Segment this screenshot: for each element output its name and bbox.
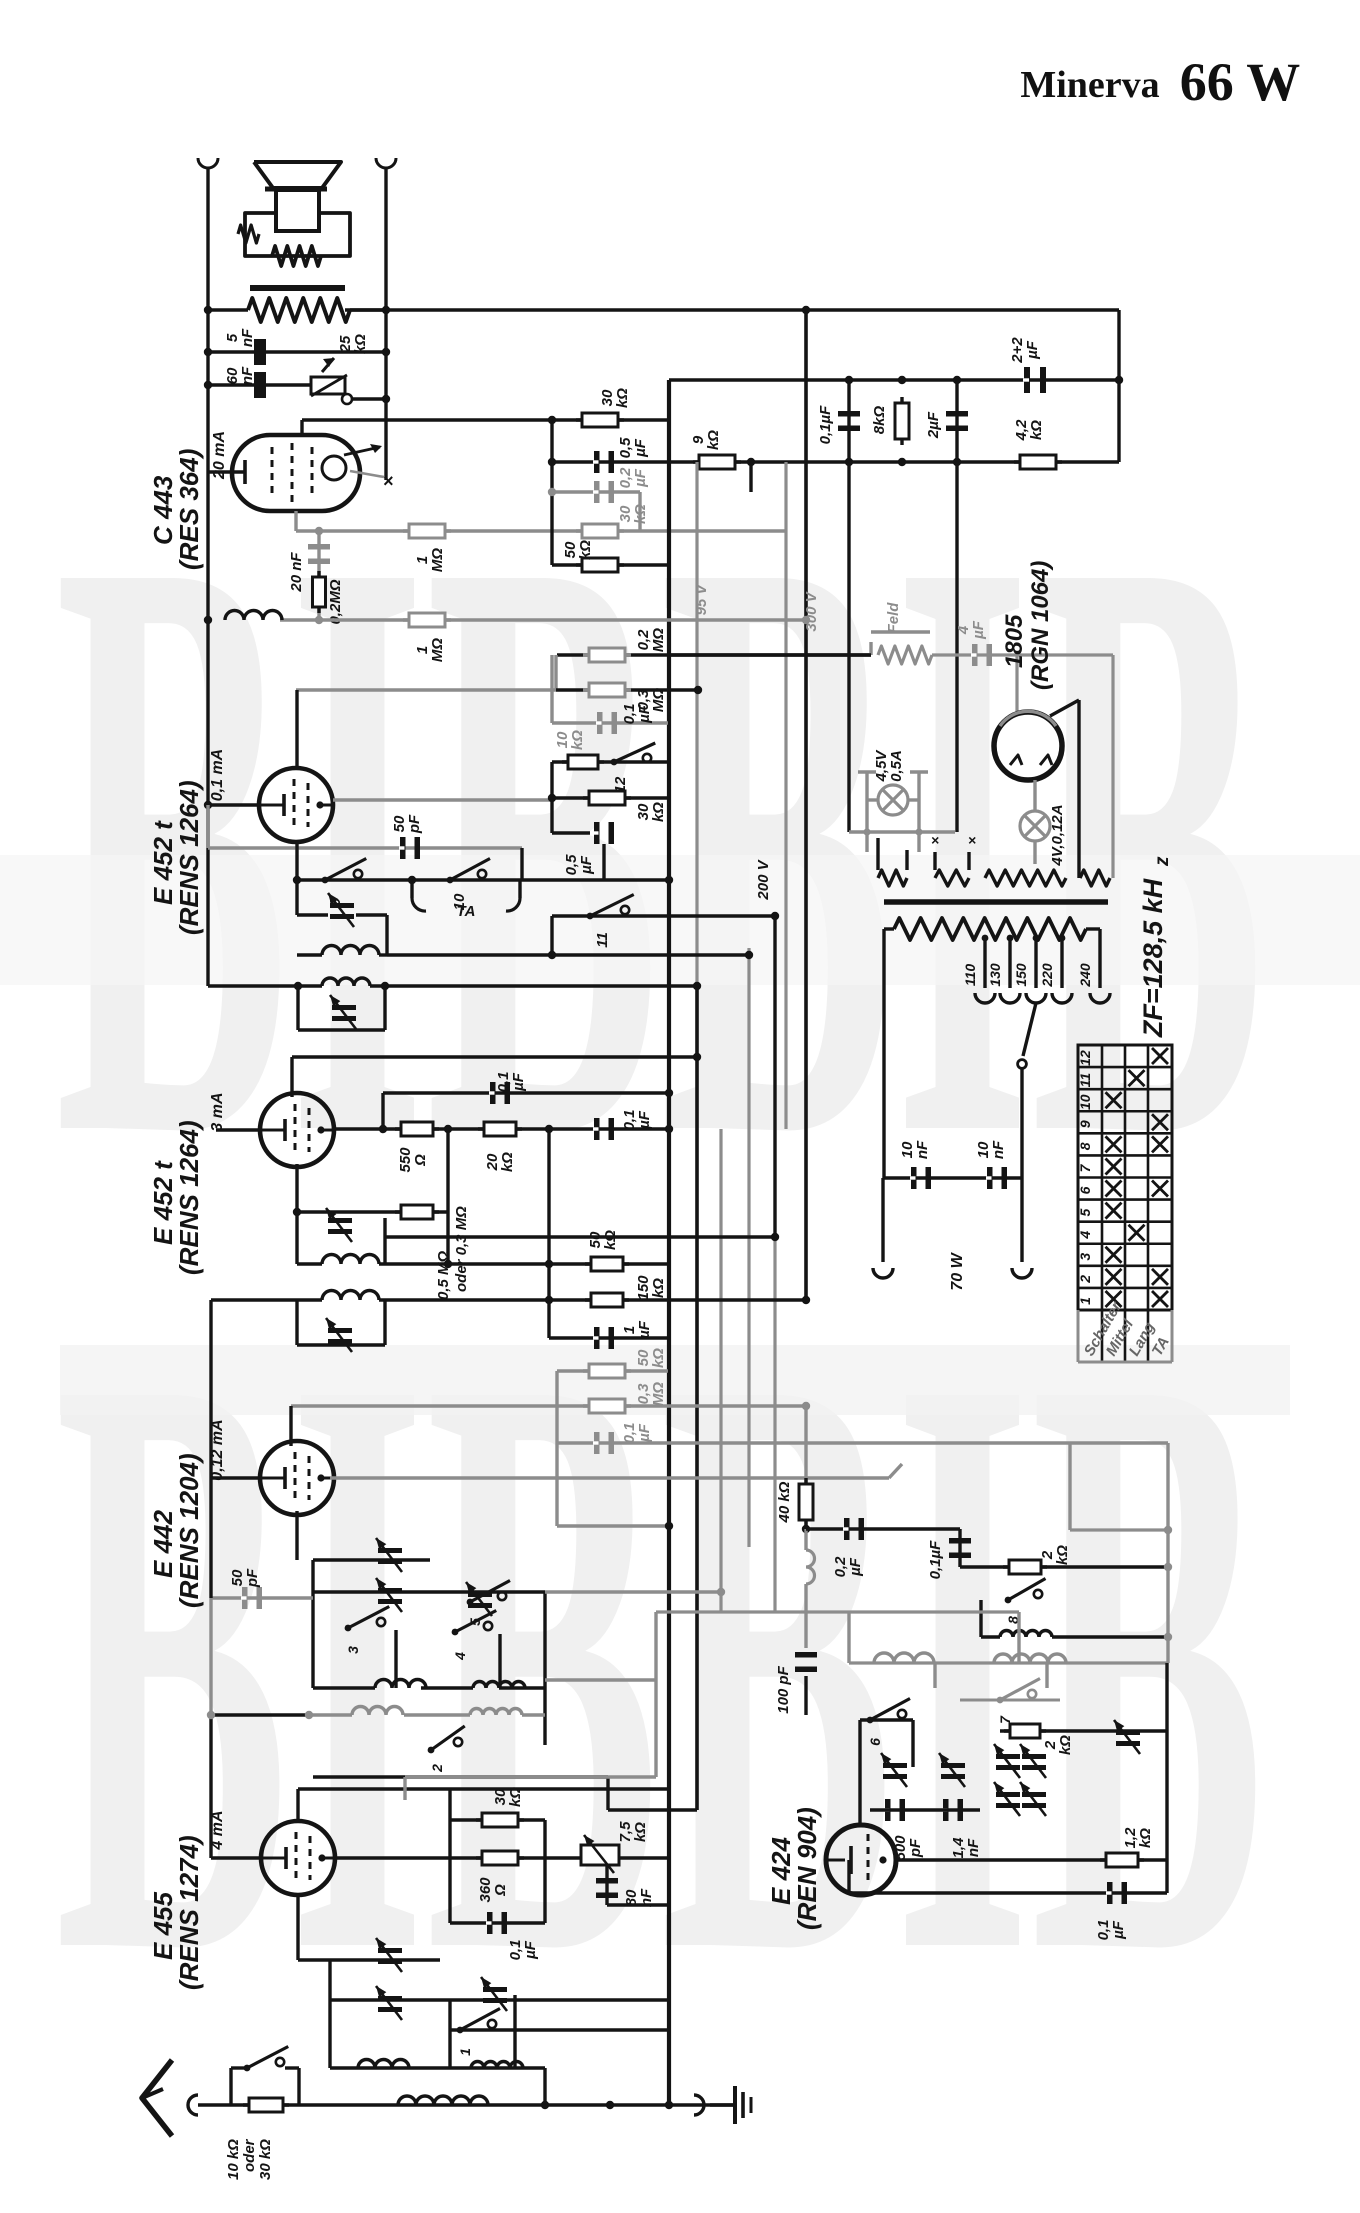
svg-text:µF: µF bbox=[636, 1110, 653, 1130]
svg-text:MΩ: MΩ bbox=[429, 638, 446, 662]
svg-text:µF: µF bbox=[970, 620, 987, 640]
svg-text:100 pF: 100 pF bbox=[775, 1665, 792, 1713]
svg-text:kΩ: kΩ bbox=[499, 1152, 516, 1172]
svg-text:4: 4 bbox=[452, 1652, 468, 1661]
svg-text:µF: µF bbox=[578, 855, 595, 875]
svg-text:(RES 364): (RES 364) bbox=[174, 449, 204, 570]
svg-text:240: 240 bbox=[1077, 963, 1093, 988]
svg-text:oder: oder bbox=[241, 2138, 258, 2172]
svg-text:1: 1 bbox=[1077, 1297, 1093, 1305]
svg-text:0,5 MΩ: 0,5 MΩ bbox=[435, 1250, 452, 1300]
svg-text:kΩ: kΩ bbox=[569, 730, 586, 750]
svg-text:MΩ: MΩ bbox=[429, 548, 446, 572]
svg-text:11: 11 bbox=[1077, 1073, 1093, 1088]
svg-text:µF: µF bbox=[522, 1940, 539, 1960]
svg-text:(RENS 1204): (RENS 1204) bbox=[174, 1453, 204, 1608]
svg-text:pF: pF bbox=[406, 814, 423, 834]
svg-text:µF: µF bbox=[636, 704, 653, 724]
svg-text:kΩ: kΩ bbox=[632, 1822, 649, 1842]
svg-text:220: 220 bbox=[1039, 963, 1055, 988]
svg-text:1: 1 bbox=[457, 2048, 473, 2056]
svg-text:10 kΩ: 10 kΩ bbox=[225, 2139, 242, 2180]
svg-text:3 mA: 3 mA bbox=[209, 1092, 226, 1131]
svg-text:oder 0,3 MΩ: oder 0,3 MΩ bbox=[453, 1206, 470, 1292]
svg-text:(RENS 1264): (RENS 1264) bbox=[174, 780, 204, 935]
svg-text:5: 5 bbox=[1077, 1209, 1093, 1217]
svg-text:µF: µF bbox=[632, 438, 649, 458]
svg-text:ZF=128,5 kH: ZF=128,5 kH bbox=[1138, 878, 1168, 1038]
svg-text:MΩ: MΩ bbox=[650, 1382, 667, 1406]
svg-text:µF: µF bbox=[636, 1423, 653, 1443]
svg-text:(RENS 1274): (RENS 1274) bbox=[174, 1835, 204, 1990]
svg-text:1805: 1805 bbox=[1001, 614, 1028, 668]
svg-text:kΩ: kΩ bbox=[352, 334, 369, 354]
svg-text:z: z bbox=[1152, 856, 1173, 867]
svg-text:×: × bbox=[383, 471, 394, 491]
svg-text:kΩ: kΩ bbox=[1028, 420, 1045, 440]
svg-text:kΩ: kΩ bbox=[1054, 1545, 1071, 1565]
svg-text:2: 2 bbox=[429, 1764, 445, 1773]
svg-text:11: 11 bbox=[594, 932, 611, 948]
svg-text:TA: TA bbox=[457, 903, 476, 920]
svg-text:nF: nF bbox=[965, 1838, 982, 1857]
svg-text:0,2MΩ: 0,2MΩ bbox=[327, 579, 344, 624]
svg-text:(RENS 1264): (RENS 1264) bbox=[174, 1120, 204, 1275]
svg-text:2: 2 bbox=[1077, 1275, 1093, 1284]
svg-text:40 kΩ: 40 kΩ bbox=[776, 1481, 793, 1523]
svg-text:(REN 904): (REN 904) bbox=[792, 1807, 822, 1930]
svg-text:nF: nF bbox=[239, 328, 256, 347]
svg-text:×: × bbox=[968, 832, 976, 848]
svg-text:66 W: 66 W bbox=[1180, 52, 1301, 112]
svg-text:µF: µF bbox=[632, 468, 649, 488]
svg-text:µF: µF bbox=[847, 1557, 864, 1577]
svg-text:130: 130 bbox=[987, 963, 1003, 987]
svg-text:6: 6 bbox=[867, 1738, 883, 1746]
svg-text:9: 9 bbox=[1077, 1120, 1093, 1128]
svg-text:5: 5 bbox=[467, 1618, 483, 1626]
svg-text:0,5A: 0,5A bbox=[888, 750, 905, 782]
svg-text:95 V: 95 V bbox=[693, 583, 710, 616]
svg-text:nF: nF bbox=[990, 1140, 1007, 1159]
svg-text:µF: µF bbox=[1024, 340, 1041, 360]
svg-text:µF: µF bbox=[510, 1072, 527, 1092]
svg-text:µF: µF bbox=[636, 1320, 653, 1340]
svg-text:kΩ: kΩ bbox=[1057, 1735, 1074, 1755]
svg-text:8: 8 bbox=[1077, 1142, 1093, 1150]
svg-text:300 V: 300 V bbox=[803, 590, 820, 631]
svg-text:8kΩ: 8kΩ bbox=[871, 406, 888, 435]
svg-text:70 W: 70 W bbox=[949, 1251, 966, 1290]
svg-text:kΩ: kΩ bbox=[650, 1278, 667, 1298]
svg-text:30 kΩ: 30 kΩ bbox=[257, 2139, 274, 2180]
svg-text:Ω: Ω bbox=[492, 1884, 509, 1897]
svg-text:200 V: 200 V bbox=[755, 858, 772, 900]
svg-text:kΩ: kΩ bbox=[705, 430, 722, 450]
svg-text:kΩ: kΩ bbox=[577, 540, 594, 560]
svg-text:0,1 mA: 0,1 mA bbox=[209, 749, 226, 801]
svg-text:kΩ: kΩ bbox=[650, 802, 667, 822]
svg-text:7: 7 bbox=[1077, 1163, 1093, 1172]
svg-text:150: 150 bbox=[1013, 963, 1029, 987]
svg-text:kΩ: kΩ bbox=[602, 1230, 619, 1250]
svg-text:Feld: Feld bbox=[885, 602, 902, 634]
svg-text:0,12 mA: 0,12 mA bbox=[209, 1419, 226, 1480]
svg-text:20 mA: 20 mA bbox=[211, 431, 228, 480]
svg-text:12: 12 bbox=[1077, 1050, 1093, 1066]
svg-text:(RGN 1064): (RGN 1064) bbox=[1027, 561, 1054, 690]
svg-text:kΩ: kΩ bbox=[1137, 1828, 1154, 1848]
svg-text:4: 4 bbox=[1077, 1231, 1093, 1240]
svg-text:2µF: 2µF bbox=[925, 411, 942, 439]
svg-text:kΩ: kΩ bbox=[650, 1348, 667, 1368]
svg-text:4V,0,12A: 4V,0,12A bbox=[1049, 804, 1066, 866]
svg-text:×: × bbox=[931, 832, 939, 848]
svg-text:10: 10 bbox=[1077, 1094, 1093, 1110]
svg-text:20 nF: 20 nF bbox=[288, 552, 305, 593]
svg-text:µF: µF bbox=[1110, 1920, 1127, 1940]
svg-text:0,1µF: 0,1µF bbox=[817, 405, 834, 444]
svg-text:MΩ: MΩ bbox=[650, 628, 667, 652]
svg-text:nF: nF bbox=[239, 366, 256, 385]
svg-text:pF: pF bbox=[907, 1838, 924, 1858]
svg-text:nF: nF bbox=[914, 1140, 931, 1159]
svg-text:6: 6 bbox=[1077, 1186, 1093, 1194]
svg-text:Minerva: Minerva bbox=[1020, 64, 1159, 106]
svg-text:3: 3 bbox=[1077, 1253, 1093, 1261]
svg-text:kΩ: kΩ bbox=[507, 1787, 524, 1807]
svg-text:Ω: Ω bbox=[412, 1154, 429, 1167]
svg-text:kΩ: kΩ bbox=[614, 388, 631, 408]
svg-text:3: 3 bbox=[345, 1646, 361, 1654]
svg-text:0,1µF: 0,1µF bbox=[927, 1540, 944, 1579]
svg-text:4 mA: 4 mA bbox=[209, 1810, 226, 1850]
svg-text:pF: pF bbox=[244, 1568, 261, 1588]
svg-text:110: 110 bbox=[962, 964, 978, 987]
